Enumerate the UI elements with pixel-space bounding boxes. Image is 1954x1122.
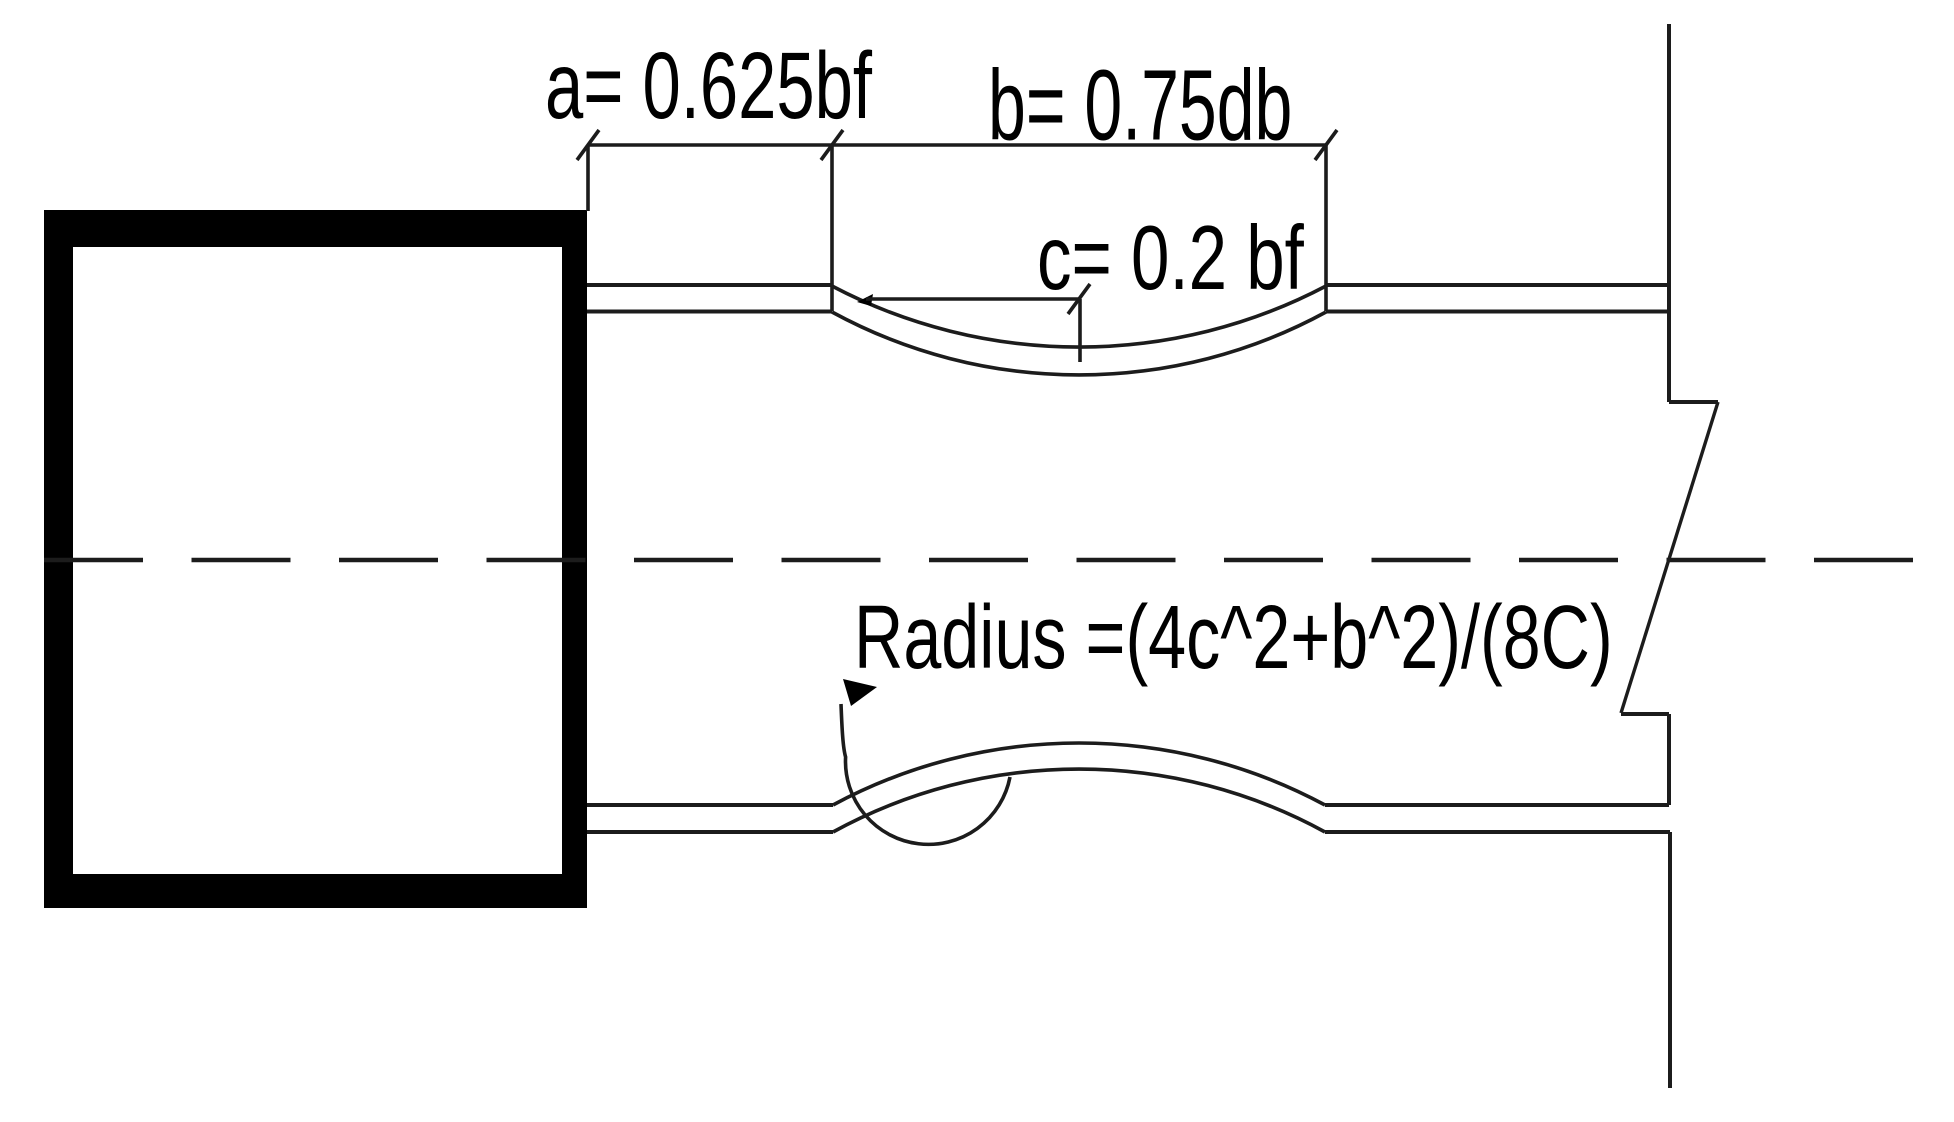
radius leader arc [841,704,1010,844]
top RBS cut, inner curve [832,312,1326,375]
bottom RBS cut, inner curve [833,743,1325,805]
beam break line, mid vertical [1667,714,1671,805]
extension line at RBS start [830,145,834,311]
tick at RBS end [1315,130,1337,160]
svg-text:a= 0.625bf: a= 0.625bf [545,32,873,139]
beam break line, lower vertical [1668,832,1672,1088]
top flange outer edge, right segment [1326,283,1669,287]
column section (hollow box, plan view) [44,210,587,908]
top flange outer edge, left segment [587,283,832,287]
c dimension leader arrow [857,294,873,306]
beam break line, upper jog [1669,400,1718,404]
bottom flange outer edge, right segment [1325,830,1670,834]
beam break line, upper vertical [1667,24,1671,402]
bottom flange inner edge, left segment [587,803,833,807]
top RBS cut, outer curve [832,286,1326,347]
bottom RBS cut, outer curve [833,769,1325,832]
c dimension drop line [1078,299,1082,362]
tick at RBS start [821,130,843,160]
bottom flange inner edge, right segment [1325,803,1669,807]
beam break line, diagonal [1621,402,1718,713]
beam break line, lower jog [1621,712,1669,716]
extension line at RBS end [1324,145,1328,311]
top flange inner edge, left segment [587,310,832,314]
radius leader arrowhead [843,679,877,706]
extension line at column face [586,145,590,211]
svg-text:b= 0.75db: b= 0.75db [988,51,1292,162]
tick at column face [577,130,599,160]
c dimension leader line [866,297,1079,301]
svg-text:Radius =(4c^2+b^2)/(8C): Radius =(4c^2+b^2)/(8C) [854,587,1613,687]
dimension line a+b [588,143,1326,147]
top flange inner edge, right segment [1326,310,1669,314]
c dimension tick [1068,284,1090,314]
beam centerline (dashed) [44,558,1915,563]
bottom flange outer edge, left segment [587,830,833,834]
svg-text:c= 0.2 bf: c= 0.2 bf [1037,208,1304,309]
